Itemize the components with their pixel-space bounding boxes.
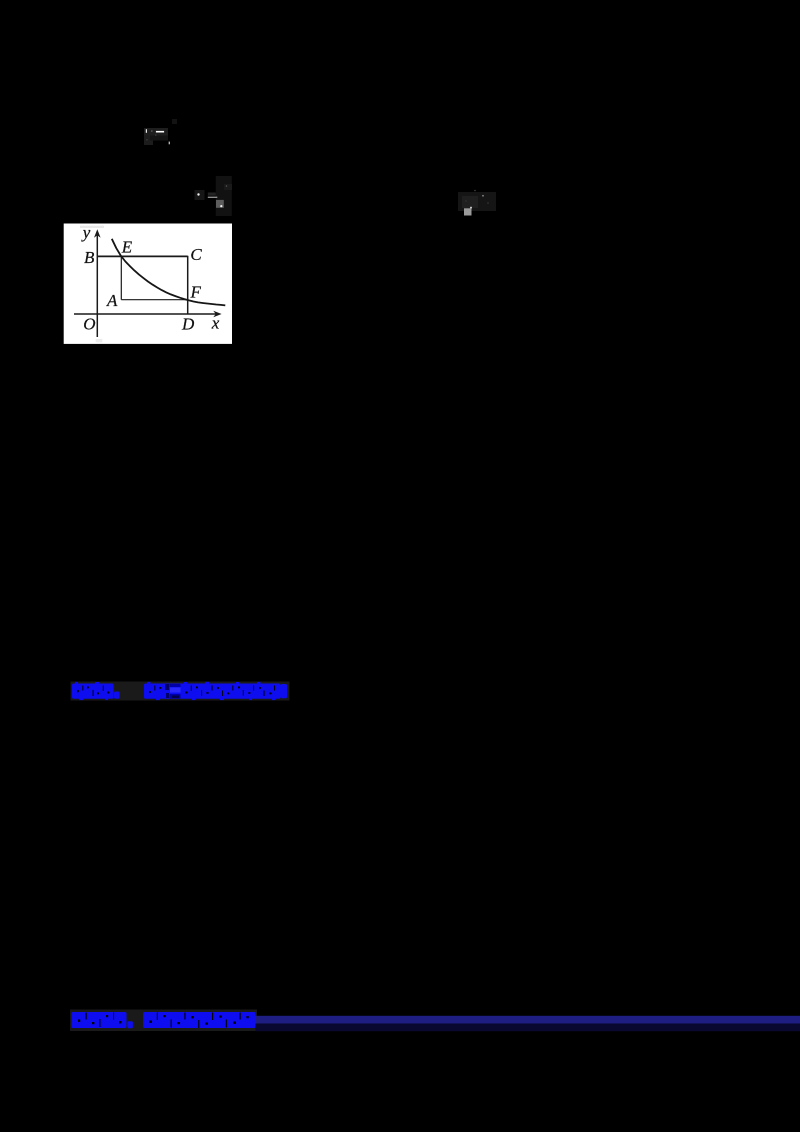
svg-text:E: E bbox=[121, 237, 133, 256]
svg-text:y: y bbox=[81, 223, 91, 242]
formula fragment 3 remnant bbox=[458, 190, 496, 216]
rect side B-C bbox=[97, 255, 187, 257]
navy underline strip dark part bbox=[256, 1024, 800, 1032]
formula fragment 2 (y = 2/x remnant) bbox=[195, 176, 233, 216]
figure: white panel bbox=[64, 224, 232, 344]
blue heading line 1 halo bbox=[71, 682, 290, 701]
char separation notches line 1 bbox=[77, 686, 275, 697]
blue heading line 2 text blobs bbox=[72, 1012, 256, 1028]
segment A-F bbox=[121, 299, 187, 301]
inner rect left edge bbox=[120, 256, 122, 299]
y-axis bbox=[94, 229, 101, 337]
svg-text:F: F bbox=[190, 283, 202, 302]
line 1 equals-area texture bbox=[165, 684, 181, 699]
svg-text:D: D bbox=[181, 315, 195, 334]
svg-text:B: B bbox=[84, 248, 95, 267]
rect side C-D bbox=[187, 256, 189, 314]
blue heading line 1 text blobs bbox=[72, 684, 287, 699]
blue heading line 2 halo bbox=[70, 1010, 257, 1032]
top-edge smudge bbox=[80, 226, 104, 228]
bottom notch bbox=[96, 339, 103, 342]
hyperbola curve bbox=[112, 239, 226, 306]
svg-text:A: A bbox=[106, 291, 118, 310]
navy underline strip bright part bbox=[256, 1016, 800, 1024]
svg-text:C: C bbox=[190, 245, 202, 264]
char separation notches line 2 bbox=[78, 1013, 249, 1029]
svg-text:x: x bbox=[211, 314, 220, 333]
line 1 edge bumps bbox=[75, 682, 276, 700]
x-axis bbox=[74, 311, 222, 317]
svg-text:O: O bbox=[83, 314, 95, 333]
formula fragment 1 (y = k/x remnant) bbox=[144, 119, 177, 145]
